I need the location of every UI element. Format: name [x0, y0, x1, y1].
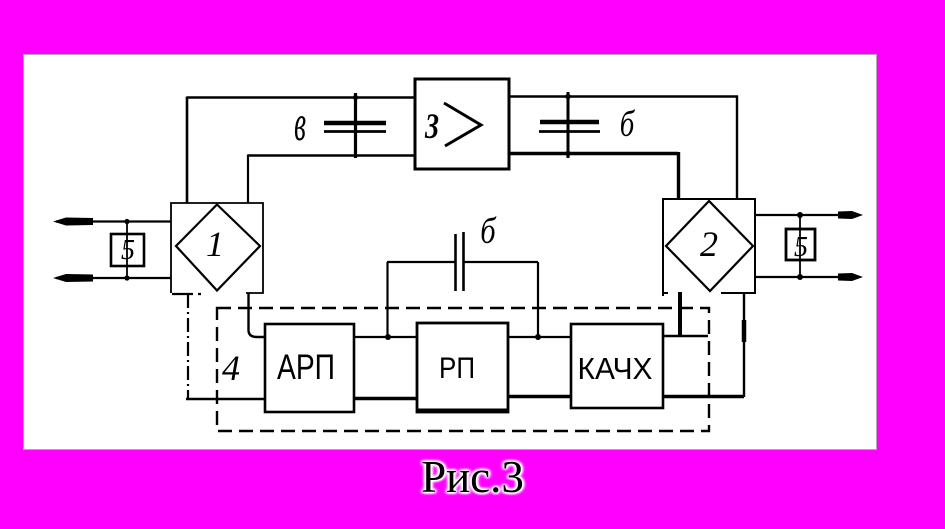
svg-text:5: 5 — [794, 232, 808, 263]
wire: vertical from top wire down to mixer 1 box top — [186, 97, 189, 204]
wire: amp 3 lower output (thick) to mixer 2 — [509, 152, 678, 155]
block КАЧХ — [571, 324, 663, 408]
svg-text:АРП: АРП — [277, 348, 335, 387]
wire: РП to КАЧХ upper — [508, 336, 571, 338]
amplifier chevron — [444, 103, 481, 146]
svg-text:б: б — [620, 104, 636, 145]
wire: vertical down to mixer 2 box top — [677, 152, 680, 199]
wire: vertical through box 5 left — [126, 222, 128, 279]
wire: lower left port of mixer 1 — [56, 277, 171, 279]
op-amp U3 box — [415, 79, 509, 169]
svg-text:2: 2 — [700, 224, 718, 264]
arrowhead upper-right — [838, 211, 863, 219]
wire: amp 3 upper output to right corner — [509, 95, 738, 97]
wire: thick vertical to mixer2 bottom — [678, 292, 682, 336]
arrowhead lower-right — [838, 273, 863, 281]
block АРП — [265, 324, 354, 412]
arrowhead upper-left — [53, 218, 93, 226]
wire: АРП to РП lower (thick) — [354, 397, 417, 401]
mixer 1 box — [171, 203, 263, 293]
wire: АРП to РП upper — [354, 336, 417, 338]
wire: right vertical down to mixer 2 box top — [736, 96, 738, 200]
wire: right riser of bypass capacitor — [537, 262, 539, 337]
wire: upper left port of mixer 1 — [56, 220, 171, 222]
capacitor б (top-right) — [539, 92, 600, 158]
thick blob on right riser — [742, 320, 747, 342]
wire: horizontal into АРП lower-left — [186, 398, 265, 401]
junction on АРП-РП wire — [385, 334, 391, 340]
box 5 (left attenuator) — [111, 234, 144, 266]
junction lower tap right — [797, 274, 803, 280]
white drawing area — [23, 54, 877, 450]
dashed box 4 — [217, 308, 709, 431]
svg-text:РП: РП — [439, 352, 475, 385]
wire: right riser to mixer 2 bottom — [743, 293, 745, 397]
wire: left riser of bypass capacitor — [386, 262, 388, 337]
wire: mixer1 bottom to АРП lower input (dash-dot vertical) — [187, 294, 189, 399]
arrowhead lower-left — [53, 274, 93, 282]
junction cap в top wire — [353, 95, 358, 100]
wire: mixer 2 upper right port — [755, 214, 843, 216]
dash-dot stub below mixer 1 — [172, 293, 201, 295]
svg-text:б: б — [480, 211, 497, 251]
wire: top-left loop horizontal (node between mixer 1 and amp 3) — [187, 96, 415, 99]
svg-text:КАЧХ: КАЧХ — [578, 351, 653, 386]
wire: lower link mixer1 to amp 3 — [248, 154, 415, 157]
svg-text:в: в — [294, 95, 306, 151]
mixer 2 box — [663, 199, 755, 296]
svg-text:3: 3 — [424, 106, 439, 146]
wire: КАЧХ output up to mixer 2 (thick) — [663, 335, 708, 338]
svg-text:5: 5 — [121, 235, 135, 266]
mixer 1 diamond — [176, 205, 260, 291]
junction cap б top wire — [565, 94, 571, 100]
block РП — [417, 323, 508, 412]
box 5 (right attenuator) — [786, 229, 815, 260]
wire: vertical from lower link down to mixer 1 box top — [247, 155, 249, 204]
wire: РП to КАЧХ lower (thick) — [508, 395, 571, 399]
wire: vertical through box 5 right — [799, 215, 801, 277]
junction upper tap right — [797, 212, 803, 218]
wire: mixer 2 lower right port — [755, 276, 843, 278]
junction at lower tap left — [124, 275, 129, 280]
junction cap б lower wire — [565, 151, 571, 157]
junction at upper tap left — [124, 219, 129, 224]
svg-text:4: 4 — [222, 348, 240, 388]
wire: КАЧХ lower output to right riser (thick) — [663, 395, 744, 399]
junction on РП-КАЧХ wire — [535, 334, 541, 340]
wire: mixer1 bottom to АРП upper input (bracket) — [249, 293, 266, 337]
svg-text:1: 1 — [206, 224, 224, 264]
capacitor в (top-left) — [324, 93, 386, 158]
mixer 2 diamond — [666, 201, 753, 291]
caption — [0, 451, 945, 503]
capacitor б (middle bypass) — [387, 232, 538, 291]
